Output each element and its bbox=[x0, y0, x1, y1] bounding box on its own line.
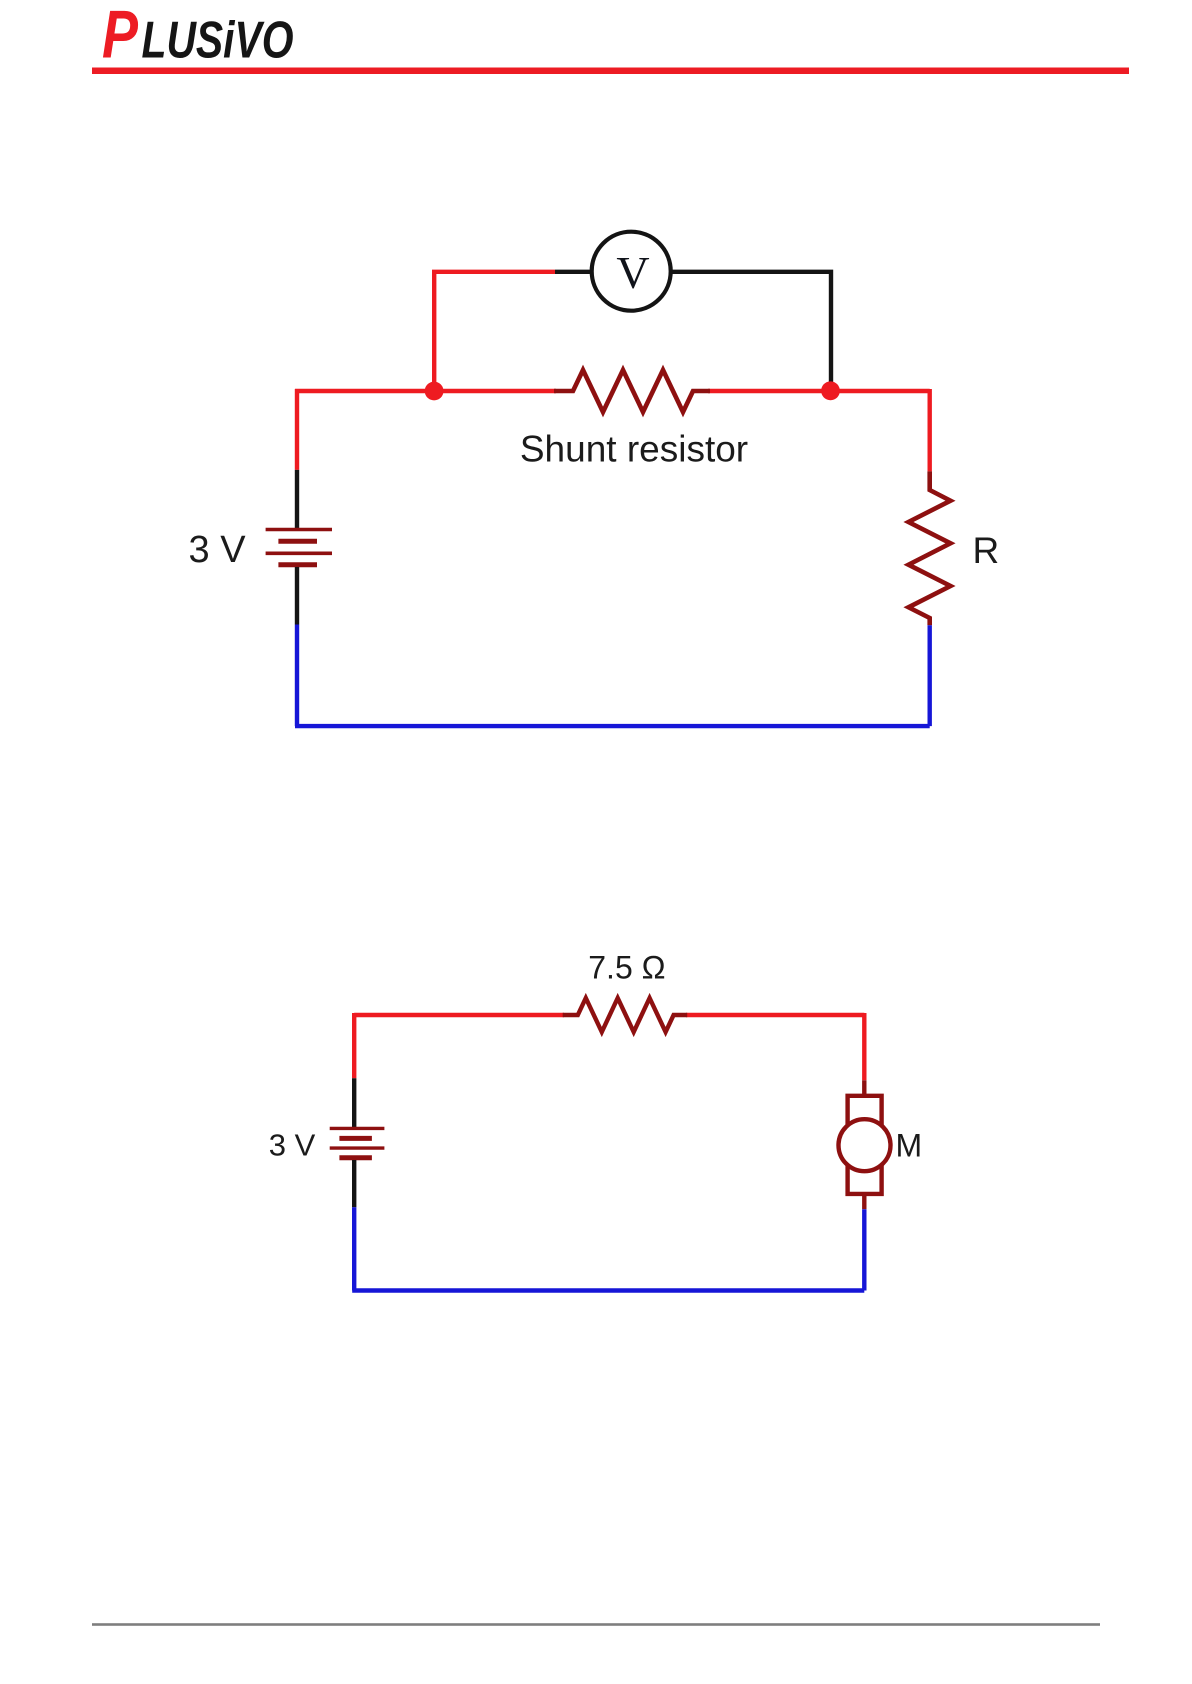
wire: circuit2 top red wire left of resistor bbox=[354, 1013, 564, 1017]
svg-text:LUSiVO: LUSiVO bbox=[142, 12, 294, 70]
shunt resistor zigzag bbox=[554, 370, 710, 412]
motor M1 bottom dark lead bbox=[862, 1194, 866, 1209]
motor M1 rotor circle bbox=[839, 1119, 891, 1171]
wire: left branch black below battery bbox=[295, 567, 299, 625]
node junction dot left bbox=[425, 382, 444, 401]
footer separator line bbox=[92, 1623, 1100, 1626]
battery B2 plate long lower bbox=[330, 1146, 385, 1149]
wire: circuit2 right branch red bbox=[862, 1013, 866, 1080]
wire: circuit2 top red wire right of resistor bbox=[686, 1013, 864, 1017]
wire: voltmeter left red segment to corner and down to junction bbox=[434, 272, 555, 391]
svg-text:7.5 Ω: 7.5 Ω bbox=[588, 949, 665, 985]
battery B1 plate long lower bbox=[266, 551, 332, 555]
motor M1 top dark lead bbox=[862, 1080, 866, 1096]
svg-text:R: R bbox=[973, 530, 1000, 571]
svg-text:Shunt resistor: Shunt resistor bbox=[520, 429, 748, 470]
svg-text:M: M bbox=[896, 1127, 923, 1163]
node junction dot right bbox=[821, 381, 840, 400]
wire: circuit2 left branch red bbox=[352, 1013, 356, 1078]
svg-text:3 V: 3 V bbox=[189, 529, 247, 571]
battery B2 plate short upper bbox=[339, 1136, 372, 1141]
wire: circuit2 right branch blue bbox=[862, 1209, 866, 1290]
wire: top main red wire left of shunt bbox=[295, 389, 556, 393]
battery B2 plate short bottom bbox=[339, 1155, 372, 1160]
wire: circuit2 left branch black below battery bbox=[352, 1160, 356, 1207]
wire: voltmeter right black segment down to junction bbox=[672, 272, 832, 391]
svg-text:3 V: 3 V bbox=[269, 1127, 316, 1162]
wire: bottom blue return wire bbox=[295, 724, 930, 728]
wire: right branch red from top corner bbox=[928, 389, 932, 471]
battery B1 plate long top bbox=[266, 528, 332, 532]
voltmeter U1 circle bbox=[592, 232, 671, 311]
svg-text:V: V bbox=[616, 247, 649, 298]
resistor 7.5 ohm zigzag bbox=[563, 998, 688, 1032]
wire: circuit2 bottom blue return wire bbox=[352, 1288, 864, 1292]
battery B1 plate short upper bbox=[278, 539, 317, 544]
motor M1 top brush rectangle bbox=[848, 1096, 882, 1126]
resistor R vertical zigzag bbox=[909, 471, 951, 625]
wire: left branch blue down to bottom corner bbox=[295, 625, 299, 727]
battery B1 plate short bottom bbox=[278, 562, 317, 567]
motor M1 bottom brush rectangle bbox=[848, 1165, 882, 1194]
wire: left branch black above battery bbox=[295, 470, 299, 530]
wire: top main red wire right of shunt bbox=[708, 389, 930, 393]
header red underline bar bbox=[92, 68, 1129, 75]
svg-text:P: P bbox=[102, 0, 139, 73]
wire: circuit2 left branch black above battery bbox=[352, 1078, 356, 1128]
battery B2 plate long top bbox=[330, 1127, 385, 1130]
wire: circuit2 left branch blue bbox=[352, 1207, 356, 1290]
wire: right branch blue down to bottom corner bbox=[928, 625, 932, 726]
wire: left branch red from top corner bbox=[295, 389, 299, 470]
wire: voltmeter left black lead bbox=[555, 270, 591, 274]
